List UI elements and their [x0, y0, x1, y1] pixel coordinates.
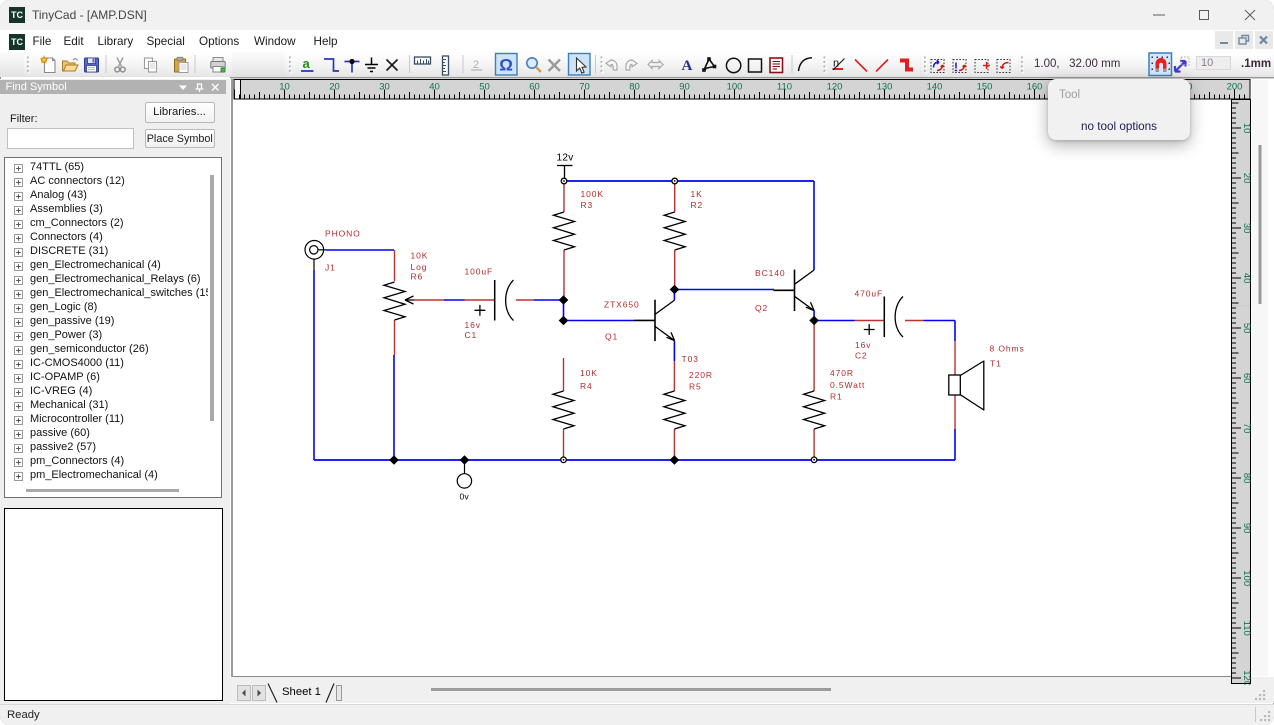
svg-text:0.5Watt: 0.5Watt — [830, 380, 865, 390]
svg-text:0v: 0v — [460, 492, 470, 502]
svg-text:R3: R3 — [581, 200, 594, 210]
svg-text:470uF: 470uF — [855, 289, 884, 299]
svg-text:R6: R6 — [411, 272, 424, 282]
svg-text:R1: R1 — [830, 392, 843, 402]
svg-text:T03: T03 — [682, 354, 699, 364]
svg-text:1K: 1K — [691, 189, 703, 199]
svg-text:C1: C1 — [465, 330, 478, 340]
svg-text:16v: 16v — [465, 320, 481, 330]
svg-text:12v: 12v — [557, 153, 574, 164]
svg-text:8 Ohms: 8 Ohms — [990, 344, 1025, 354]
svg-text:BC140: BC140 — [755, 268, 786, 278]
svg-text:ZTX650: ZTX650 — [604, 300, 640, 310]
svg-text:PHONO: PHONO — [325, 229, 361, 239]
svg-text:R5: R5 — [689, 382, 702, 392]
svg-text:16v: 16v — [855, 340, 871, 350]
svg-text:Q1: Q1 — [605, 332, 618, 342]
svg-text:100K: 100K — [581, 189, 604, 199]
svg-text:R4: R4 — [580, 381, 593, 391]
svg-text:100uF: 100uF — [465, 267, 494, 277]
svg-text:Q2: Q2 — [755, 303, 768, 313]
svg-text:C2: C2 — [855, 351, 868, 361]
svg-text:10K: 10K — [580, 368, 598, 378]
svg-text:10K: 10K — [411, 251, 429, 261]
svg-text:R2: R2 — [691, 200, 704, 210]
svg-text:120: 120 — [1241, 676, 1252, 685]
svg-text:220R: 220R — [689, 370, 713, 380]
svg-text:T1: T1 — [990, 359, 1002, 369]
svg-text:470R: 470R — [830, 368, 854, 378]
svg-text:J1: J1 — [325, 263, 336, 273]
svg-text:Log: Log — [411, 262, 428, 272]
